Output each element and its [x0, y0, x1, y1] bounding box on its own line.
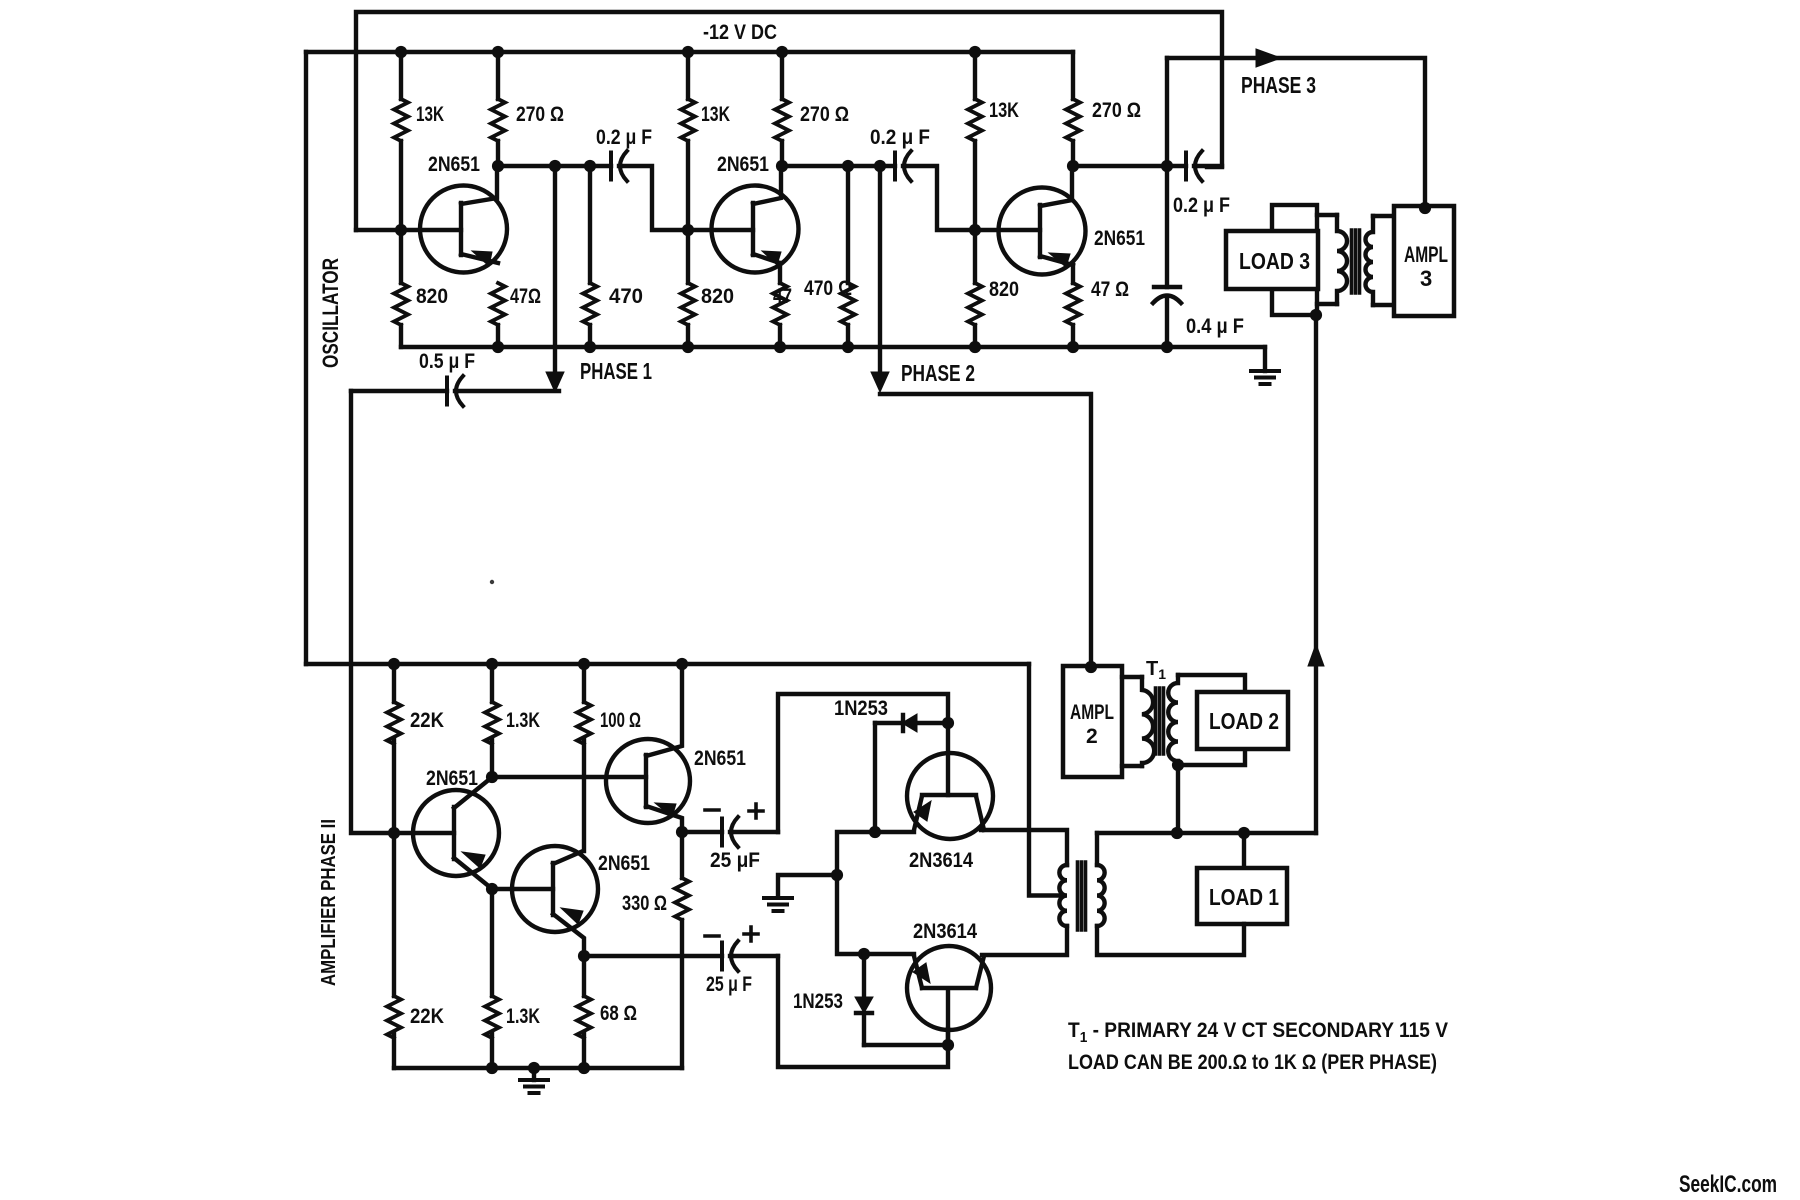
node junction (975,230) — [969, 224, 981, 236]
wire right riser LOAD3 loop down to LOAD1 line — [1314, 315, 1318, 833]
svg-text:2N651: 2N651 — [428, 153, 480, 176]
box AMPL 3 — [1394, 206, 1454, 316]
svg-text:1.3K: 1.3K — [506, 709, 540, 732]
svg-text:13K: 13K — [989, 99, 1019, 122]
node Q4 collector / Q6 base — [486, 771, 498, 783]
svg-text:13K: 13K — [416, 103, 444, 126]
resistor 13K stage 1 — [399, 52, 403, 283]
wire LOAD 3 primary loop rectangle — [1272, 205, 1317, 315]
transformer load3-ampl3 left winding — [1337, 215, 1347, 304]
transistor Q3 2N651 — [999, 166, 1086, 275]
svg-text:0.4 μ F: 0.4 μ F — [1186, 315, 1244, 338]
wire Q6 base line — [492, 775, 646, 779]
svg-text:-12 V DC: -12 V DC — [703, 21, 777, 44]
node lower diode junction — [942, 1039, 954, 1051]
svg-text:470 Ω: 470 Ω — [804, 277, 852, 300]
box LOAD 3 — [1226, 231, 1318, 289]
wire lower diode to base line — [864, 1043, 948, 1047]
wire phase-3 riser — [1165, 58, 1169, 287]
svg-text:OSCILLATOR: OSCILLATOR — [318, 258, 343, 368]
svg-text:68 Ω: 68 Ω — [600, 1002, 637, 1025]
svg-text:1.3K: 1.3K — [506, 1005, 540, 1028]
node rail junction 13K-1 — [395, 46, 407, 58]
svg-text:T1 - PRIMARY 24 V CT SECONDARY: T1 - PRIMARY 24 V CT SECONDARY 115 V — [1068, 1019, 1448, 1046]
arrow phase 2 down — [871, 372, 889, 392]
node AMPL3 input junction — [1419, 202, 1431, 214]
diode 1N253 upper — [875, 715, 948, 731]
svg-text:470: 470 — [609, 285, 643, 308]
resistor 1.3K lower — [485, 996, 499, 1038]
transformer output core — [1078, 862, 1086, 930]
wire left supply drop to amplifier section — [304, 52, 308, 664]
node junction (975,347) — [969, 341, 981, 353]
wire LOAD2 loop down to LOAD1 line — [1176, 765, 1180, 833]
node junction (1244,833) — [1238, 827, 1250, 839]
node junction (555,166) — [549, 160, 561, 172]
wire emitter node to Q7 — [875, 830, 914, 834]
resistor 47 stage 2 — [778, 263, 782, 347]
svg-text:2N651: 2N651 — [1094, 227, 1145, 250]
transformer T1 core — [1156, 688, 1164, 754]
svg-text:22K: 22K — [410, 709, 444, 732]
svg-text:47Ω: 47Ω — [510, 285, 541, 308]
resistor 820 stage 2 — [681, 283, 695, 325]
ground oscillator common — [1263, 347, 1267, 371]
node junction (492,664) — [486, 658, 498, 670]
node junction (837,875) — [831, 869, 843, 881]
node Q6 emitter / 330 ohm / 25uF — [676, 826, 688, 838]
svg-text:2N3614: 2N3614 — [913, 920, 977, 943]
node amp input base — [388, 827, 400, 839]
wire collector node stage 2 — [782, 164, 895, 168]
diode 1N253 lower — [856, 954, 872, 1045]
resistor 68 ohm — [582, 956, 586, 1068]
transformer load3-ampl3 right winding — [1366, 216, 1373, 305]
node junction (584,1068) — [578, 1062, 590, 1074]
node junction (880,166) — [874, 160, 886, 172]
svg-text:0.5 μ F: 0.5 μ F — [419, 350, 475, 373]
wire bracket winding to AMPL3 — [1373, 216, 1394, 305]
wire LOAD 2 secondary loop rectangle — [1178, 675, 1245, 765]
svg-text:13K: 13K — [701, 103, 730, 126]
resistor 13K stage 3 — [973, 52, 977, 283]
capacitor 25uF lower coupling — [584, 954, 722, 958]
wire primary bottom from lower 2N3614 collector — [982, 926, 1067, 955]
svg-text:270 Ω: 270 Ω — [1092, 99, 1141, 122]
svg-text:AMPL: AMPL — [1404, 242, 1448, 267]
node junction (590,166) — [584, 160, 596, 172]
node junction (1073,347) — [1067, 341, 1079, 353]
transistor Q6 2N651 upper — [606, 664, 690, 832]
wire feedback top loop from stage-3 coupling cap to stage-1 base — [356, 12, 1222, 230]
svg-text:330 Ω: 330 Ω — [622, 892, 667, 915]
resistor 47 ohm stage 1 — [491, 283, 505, 325]
capacitor 25uF upper coupling — [682, 830, 722, 834]
wire -12V DC supply rail — [306, 50, 1073, 54]
transistor Q8 2N3614 lower — [907, 946, 991, 1030]
wire lower emitter node to Q8 — [864, 952, 914, 956]
resistor 470 ohm stage 2 — [846, 166, 850, 347]
node lower emitter junction — [858, 948, 870, 960]
resistor 270 ohm stage 3 — [1071, 52, 1075, 166]
wire phase 3 line to AMPL 3 — [1167, 58, 1425, 207]
svg-text:AMPL: AMPL — [1070, 701, 1114, 724]
scan speck — [490, 580, 494, 584]
transistor Q7 2N3614 upper — [907, 753, 993, 839]
node junction (1167,347) — [1161, 341, 1173, 353]
svg-text:25 μ F: 25 μ F — [706, 973, 752, 996]
svg-text:820: 820 — [989, 278, 1019, 301]
wire upper diode to emitter node — [873, 723, 877, 832]
resistor 13K stage 2 — [686, 52, 690, 283]
node Q5 emitter / 68 ohm / 25uF — [578, 950, 590, 962]
arrow phase 1 down — [546, 372, 564, 392]
svg-text:3: 3 — [1420, 266, 1432, 291]
wire LOAD1 top line from output transformer secondary — [1097, 831, 1316, 835]
transformer T1 right winding — [1168, 675, 1178, 765]
svg-text:PHASE 2: PHASE 2 — [901, 360, 975, 386]
svg-text:SeekIC.com: SeekIC.com — [1679, 1171, 1777, 1198]
svg-text:1N253: 1N253 — [793, 990, 843, 1013]
capacitor 0.5uF phase-1 coupling — [351, 389, 447, 393]
node rail junction 13K-3 — [969, 46, 981, 58]
svg-text:PHASE 3: PHASE 3 — [1241, 72, 1316, 98]
resistor 330 ohm — [680, 832, 684, 1068]
resistor 470 stage 1 — [588, 166, 592, 347]
wire bracket AMPL2 to T1 winding — [1122, 677, 1142, 766]
svg-text:PHASE 1: PHASE 1 — [580, 358, 652, 384]
wire phase-2 feed to AMPL 2 — [880, 394, 1091, 666]
node LOAD3 loop bottom junction — [1310, 309, 1322, 321]
svg-text:2N651: 2N651 — [694, 747, 746, 770]
wire phase-1 takeoff from collector 1 — [553, 166, 557, 374]
wire ground tie down to lower emitter — [837, 875, 864, 954]
resistor 270 ohm stage 1 — [496, 52, 500, 166]
resistor 820 stage 1 — [394, 283, 408, 325]
wire LOAD1 bottom return loop — [1097, 924, 1244, 955]
wire bracket load3 loop to transformer winding — [1317, 215, 1337, 304]
wire amplifier ground bus — [394, 1066, 682, 1070]
wire lower 2N3614 base feed — [778, 956, 948, 1067]
svg-text:270 Ω: 270 Ω — [800, 103, 849, 126]
node junction (688,347) — [682, 341, 694, 353]
node junction (848,166) — [842, 160, 854, 172]
svg-text:270 Ω: 270 Ω — [516, 103, 564, 126]
wire upper 2N3614 base feed — [778, 694, 948, 832]
wire oscillator common bus — [401, 345, 1265, 349]
resistor 1.3K upper — [490, 664, 494, 777]
transformer load3-ampl3 core — [1352, 230, 1360, 293]
transformer T1 left winding — [1142, 677, 1154, 766]
node junction (1177,833) — [1171, 827, 1183, 839]
node Q4 emitter / Q5 base — [486, 883, 498, 895]
svg-text:2: 2 — [1086, 725, 1098, 748]
ground amplifier — [532, 1068, 536, 1080]
transformer output primary winding — [1059, 865, 1067, 926]
node junction (394,664) — [388, 658, 400, 670]
svg-text:LOAD 3: LOAD 3 — [1239, 248, 1310, 274]
transistor Q5 2N651 middle — [512, 846, 598, 956]
resistor 22K upper — [392, 664, 396, 833]
node junction (534,1068) — [528, 1062, 540, 1074]
node junction (401,230) — [395, 224, 407, 236]
svg-text:0.2 μ F: 0.2 μ F — [870, 126, 930, 149]
ground push-pull — [764, 898, 792, 911]
svg-text:47: 47 — [773, 285, 792, 308]
svg-text:AMPLIFIER PHASE II: AMPLIFIER PHASE II — [318, 819, 340, 986]
capacitor 0.2uF stage1-stage2 coupling — [611, 151, 627, 181]
resistor 820 stage 3 — [968, 283, 982, 325]
resistor 22K lower — [392, 833, 396, 1068]
svg-text:25 μF: 25 μF — [710, 849, 760, 872]
wire amplifier supply rail — [306, 662, 1029, 666]
resistor 47 ohm stage 3 — [1071, 265, 1075, 347]
box LOAD 1 — [1242, 833, 1246, 868]
transistor Q1 2N651 — [420, 166, 507, 273]
node junction (682,664) — [676, 658, 688, 670]
svg-text:47 Ω: 47 Ω — [1091, 278, 1129, 301]
svg-text:820: 820 — [701, 285, 734, 308]
wire collector node stage 3 — [1073, 164, 1186, 168]
node junction (584,664) — [578, 658, 590, 670]
capacitor 0.4uF phase shift — [1153, 287, 1181, 347]
node rail junction 270-1 — [492, 46, 504, 58]
transistor Q4 2N651 input — [394, 778, 499, 888]
svg-text:LOAD CAN BE 200.Ω to 1K Ω (PER: LOAD CAN BE 200.Ω to 1K Ω (PER PHASE) — [1068, 1051, 1437, 1074]
node upper diode junction — [942, 717, 954, 729]
capacitor 0.2uF stage-3 output coupling — [1186, 151, 1202, 181]
svg-text:2N651: 2N651 — [717, 153, 769, 176]
svg-text:22K: 22K — [410, 1005, 444, 1028]
node junction (782,166) — [776, 160, 788, 172]
resistor 270 ohm stage 2 — [780, 52, 784, 166]
svg-text:2N651: 2N651 — [426, 767, 478, 790]
wire emitter ground tie — [778, 832, 875, 896]
wire Q5 base line — [492, 887, 553, 891]
arrow phase 3 right — [1256, 49, 1281, 67]
svg-text:0.2 μ F: 0.2 μ F — [596, 126, 652, 149]
node junction (1073,166) — [1067, 160, 1079, 172]
svg-text:2N3614: 2N3614 — [909, 849, 973, 872]
wire primary center tap from supply rail — [1029, 664, 1063, 896]
svg-text:100 Ω: 100 Ω — [600, 709, 641, 732]
node junction (498,166) — [492, 160, 504, 172]
svg-text:LOAD 1: LOAD 1 — [1209, 884, 1279, 910]
box AMPL 2 — [1063, 666, 1122, 777]
node upper emitter junction — [869, 826, 881, 838]
wire primary top from upper 2N3614 collector — [981, 830, 1067, 865]
capacitor 0.2uF stage2-stage3 coupling — [895, 151, 911, 181]
node rail junction 13K-2 — [682, 46, 694, 58]
wire phase-1 feed down to amplifier input — [351, 391, 454, 833]
svg-text:1N253: 1N253 — [834, 697, 888, 720]
resistor 100 ohm — [582, 664, 586, 851]
node junction (1167,166) — [1161, 160, 1173, 172]
node rail junction 270-2 — [776, 46, 788, 58]
svg-text:LOAD 2: LOAD 2 — [1209, 708, 1279, 734]
node junction (780,347) — [774, 341, 786, 353]
node AMPL2 input junction — [1085, 661, 1097, 673]
wire collector node stage 1 — [498, 164, 611, 168]
node junction (848,347) — [842, 341, 854, 353]
node LOAD2 loop bottom junction — [1172, 759, 1184, 771]
wire phase-2 takeoff from collector 2 — [878, 166, 882, 374]
arrow up on right riser — [1308, 644, 1324, 666]
transistor Q2 2N651 — [712, 166, 799, 273]
svg-text:0.2 μ F: 0.2 μ F — [1173, 194, 1230, 217]
box LOAD 2 — [1197, 692, 1288, 749]
node junction (492,1068) — [486, 1062, 498, 1074]
svg-text:820: 820 — [416, 285, 448, 308]
svg-text:2N651: 2N651 — [598, 852, 650, 875]
node junction (688,230) — [682, 224, 694, 236]
node junction (498,347) — [492, 341, 504, 353]
node junction (590,347) — [584, 341, 596, 353]
wire secondary top to LOAD1 line — [1095, 833, 1099, 865]
wire base stage 1 — [356, 228, 461, 232]
transformer output secondary winding — [1097, 865, 1105, 926]
wire 1.3K lower feed — [490, 889, 494, 1068]
